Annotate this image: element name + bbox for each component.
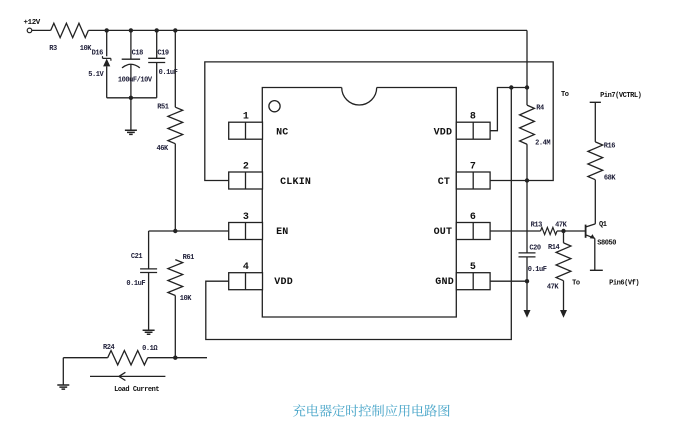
resistor R24 0.1ohm <box>108 351 148 365</box>
node x527 rail <box>525 85 529 89</box>
svg-text:0.1Ω: 0.1Ω <box>142 345 158 353</box>
wire D16-C18-C19 bottom <box>107 97 157 99</box>
svg-text:S8050: S8050 <box>597 240 616 248</box>
wire pin8 VDD <box>490 88 527 131</box>
node C18 bottom <box>129 96 133 100</box>
svg-text:R3: R3 <box>49 45 57 53</box>
capacitor C18 100uF/10V <box>122 30 140 59</box>
pin 4 box <box>229 273 263 290</box>
svg-text:10K: 10K <box>180 295 193 303</box>
svg-text:CT: CT <box>438 177 450 188</box>
wire R4 to CT <box>526 144 528 253</box>
wire <box>63 357 107 359</box>
node R61-R24 <box>173 356 177 360</box>
svg-text:CLKIN: CLKIN <box>280 177 311 188</box>
ground <box>130 98 132 131</box>
svg-text:5: 5 <box>470 262 476 273</box>
wire OUT row <box>490 230 540 232</box>
node VDD loop top <box>509 85 513 89</box>
pin 2 box <box>229 172 263 189</box>
capacitor C21 0.1uF <box>140 231 157 330</box>
svg-text:Pin7(VCTRL): Pin7(VCTRL) <box>600 92 642 100</box>
ground <box>62 358 64 385</box>
wire pin4 VDD loop <box>206 88 512 340</box>
svg-text:2.4M: 2.4M <box>535 139 550 147</box>
svg-text:0.1uF: 0.1uF <box>528 266 547 274</box>
svg-text:+12V: +12V <box>24 19 41 27</box>
wire <box>148 357 207 359</box>
pin 8 box <box>456 122 490 139</box>
node rail-R51 <box>173 28 177 32</box>
svg-text:Load Current: Load Current <box>114 386 159 394</box>
pin 3 box <box>229 223 263 240</box>
node rail-D16 <box>105 28 109 32</box>
pin 6 box <box>456 223 490 240</box>
resistor R14 47K <box>563 231 565 243</box>
node GND-C20 <box>525 279 529 283</box>
resistor R3 <box>51 23 89 37</box>
pin 5 box <box>456 273 490 290</box>
svg-text:R13: R13 <box>531 222 543 230</box>
svg-text:R14: R14 <box>548 244 560 252</box>
svg-text:1: 1 <box>243 112 249 123</box>
svg-text:7: 7 <box>470 161 476 172</box>
svg-text:D16: D16 <box>92 50 104 58</box>
caption 充电器定时控制应用电路图 <box>293 404 450 417</box>
svg-text:R16: R16 <box>604 142 616 150</box>
svg-text:2: 2 <box>243 161 249 172</box>
ground <box>143 330 155 334</box>
svg-text:R61: R61 <box>183 254 195 262</box>
resistor R13 47K <box>541 227 558 234</box>
wire top rail <box>88 29 527 31</box>
svg-text:46K: 46K <box>157 145 170 153</box>
svg-text:NC: NC <box>276 127 288 138</box>
svg-text:10K: 10K <box>80 45 93 53</box>
svg-text:To: To <box>572 279 580 287</box>
svg-text:Q1: Q1 <box>599 221 607 229</box>
node rail-C18 <box>129 28 133 32</box>
svg-text:C19: C19 <box>157 50 169 58</box>
svg-text:0.1uF: 0.1uF <box>126 280 145 288</box>
pin 1 box <box>229 122 263 139</box>
svg-text:5.1V: 5.1V <box>88 71 104 79</box>
svg-text:GND: GND <box>435 277 454 288</box>
svg-text:47K: 47K <box>547 284 560 292</box>
wire GND row <box>490 280 527 282</box>
ground arrow <box>524 310 531 318</box>
svg-text:To: To <box>561 91 569 99</box>
resistor R4 2.4M <box>520 105 535 144</box>
svg-text:3: 3 <box>243 212 249 223</box>
svg-text:R24: R24 <box>103 344 115 352</box>
svg-text:100uF/10V: 100uF/10V <box>118 77 153 85</box>
svg-text:Pin6(Vf): Pin6(Vf) <box>609 279 639 287</box>
pin1 indicator circle <box>269 101 280 112</box>
resistor R51 46K <box>174 30 176 107</box>
wire EN row <box>149 230 229 232</box>
terminal +12V <box>27 28 32 33</box>
zener diode D16 5.1V <box>106 30 108 56</box>
node R13-R14 <box>561 229 565 233</box>
capacitor C19 0.1uF <box>148 30 165 97</box>
resistor R61 10K <box>168 260 183 296</box>
svg-text:R51: R51 <box>157 104 169 112</box>
wire CLKIN loop <box>205 62 553 181</box>
pin 7 box <box>456 172 490 189</box>
svg-text:C20: C20 <box>529 245 541 253</box>
transistor Q1 S8050 <box>585 225 587 238</box>
node EN-R51 <box>173 229 177 233</box>
svg-text:47K: 47K <box>555 222 568 230</box>
ground arrow <box>560 310 567 318</box>
wire to Q1 base <box>557 230 586 232</box>
node rail-C19 <box>155 28 159 32</box>
svg-text:6: 6 <box>470 212 476 223</box>
capacitor C20 0.1uF <box>519 253 536 311</box>
svg-text:VDD: VDD <box>274 277 293 288</box>
op IC body U1 <box>262 88 456 318</box>
node CT-R4 <box>525 178 529 182</box>
wire <box>32 29 51 31</box>
svg-text:EN: EN <box>276 227 288 238</box>
svg-text:68K: 68K <box>604 174 617 182</box>
svg-text:4: 4 <box>243 262 249 273</box>
svg-text:8: 8 <box>470 112 476 123</box>
wire +12V drop <box>526 30 528 105</box>
svg-text:R4: R4 <box>536 104 544 112</box>
svg-text:VDD: VDD <box>434 127 453 138</box>
resistor R16 68K <box>590 102 601 142</box>
svg-text:OUT: OUT <box>434 227 453 238</box>
svg-text:C18: C18 <box>132 49 144 57</box>
load current arrow <box>90 372 165 380</box>
svg-text:C21: C21 <box>131 253 143 261</box>
